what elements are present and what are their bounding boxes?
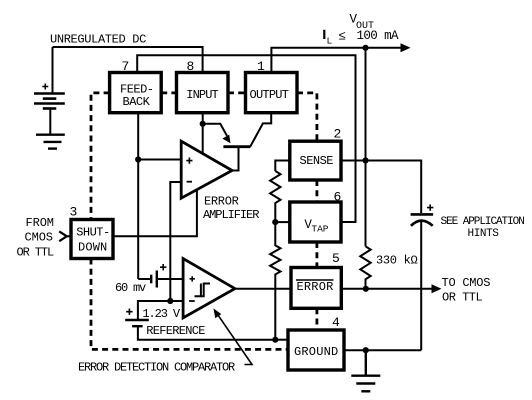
- battery B3 1.23V reference: [125, 319, 149, 321]
- node divider tap: [272, 219, 278, 225]
- node sense junction: [362, 157, 368, 163]
- svg-text:1.23 V: 1.23 V: [142, 307, 181, 321]
- svg-text:OR TTL: OR TTL: [17, 246, 55, 260]
- op-amp U2 error detection comparator: [183, 259, 235, 318]
- wire ERROR output to TO-CMOS arrow: [341, 288, 433, 290]
- transistor Q1 base bar: [223, 145, 250, 148]
- op-amp U1 error amplifier: [181, 141, 232, 198]
- node VOUT junction: [362, 45, 368, 51]
- svg-text:330 kΩ: 330 kΩ: [376, 254, 418, 268]
- wire SENSE right to sense node: [341, 160, 366, 162]
- svg-text:UNREGULATED DC: UNREGULATED DC: [50, 32, 146, 46]
- wire tap to VTAP block: [275, 221, 290, 223]
- node transistor emitter junction: [200, 121, 206, 127]
- svg-text:INPUT: INPUT: [186, 88, 218, 102]
- svg-text:TAP: TAP: [311, 223, 328, 234]
- wire shutdown output to error amp: [113, 190, 197, 237]
- wire VOUT down to sense node: [365, 48, 367, 161]
- node error amp + junction: [135, 156, 141, 162]
- block OUTPUT pin1: [246, 73, 298, 113]
- wire sense node down to resistor R3: [365, 161, 367, 247]
- wire INPUT pin down to error amp top: [202, 113, 204, 154]
- block VTAP pin6: [290, 202, 341, 242]
- wire to error amp + input: [138, 159, 181, 161]
- wire error amp - input down to reference node: [170, 182, 181, 301]
- svg-text:FROM: FROM: [26, 216, 54, 230]
- svg-text:DOWN: DOWN: [78, 241, 107, 255]
- node reference junction: [167, 298, 173, 304]
- wire error amp output to transistor base: [232, 148, 238, 171]
- block FEEDBACK pin7: [110, 73, 162, 113]
- svg-text:HINTS: HINTS: [468, 228, 500, 240]
- comparator plus label: [190, 276, 195, 281]
- svg-text:7: 7: [122, 59, 130, 74]
- svg-text:REFERENCE: REFERENCE: [146, 324, 205, 338]
- svg-text:CMOS: CMOS: [25, 231, 53, 245]
- battery B2 60mv offset: [150, 275, 152, 284]
- svg-text:SEE APPLICATION: SEE APPLICATION: [441, 216, 525, 228]
- svg-text:L: L: [327, 36, 333, 47]
- capacitor C1 top plate: [411, 213, 434, 216]
- wire capacitor bottom to ground wire: [420, 221, 422, 351]
- ground (battery): [36, 135, 65, 149]
- block INPUT pin8: [177, 73, 229, 113]
- battery 60mv plus sign: [160, 264, 166, 270]
- dashed IC border left and bottom: [91, 93, 317, 350]
- wire battery positive lead: [52, 47, 54, 93]
- resistor R3 330k: [360, 246, 370, 288]
- shutdown input chevron: [59, 231, 67, 241]
- capacitor C1 curved plate: [411, 221, 433, 226]
- wire SENSE left to divider: [275, 161, 290, 172]
- svg-text:ERROR: ERROR: [297, 280, 334, 294]
- svg-text:OR TTL: OR TTL: [442, 291, 483, 305]
- wire feedback-to-vtap line B: [137, 55, 355, 222]
- svg-text:2: 2: [334, 127, 342, 142]
- svg-text:TO CMOS: TO CMOS: [442, 276, 491, 290]
- wire chevron to SHUTDOWN block: [67, 235, 71, 237]
- svg-text:5: 5: [332, 251, 340, 266]
- block ERROR pin5: [291, 268, 341, 309]
- wire VOUT rail from OUTPUT pin: [271, 48, 402, 73]
- error amp plus label: [186, 158, 192, 164]
- comparator minus label: [189, 300, 195, 302]
- error amp minus label: [187, 181, 192, 183]
- label arrow error detection comparator: [216, 312, 252, 364]
- resistor R1 divider top: [270, 171, 280, 222]
- svg-text:GROUND: GROUND: [294, 345, 338, 359]
- text IL <= 100 mA: [323, 30, 325, 39]
- comparator hysteresis symbol: [195, 284, 211, 297]
- wire rail to GROUND block: [275, 339, 288, 341]
- svg-text:60 mv: 60 mv: [115, 281, 146, 295]
- svg-text:≤: ≤: [339, 30, 347, 44]
- transistor Q1 collector: [250, 113, 271, 147]
- wire 1.23V battery to reference rail: [138, 326, 275, 340]
- svg-text:6: 6: [334, 190, 342, 205]
- wire reference node to 1.23V battery: [138, 301, 170, 319]
- capacitor plus sign: [427, 204, 433, 210]
- svg-text:3: 3: [70, 205, 78, 220]
- svg-text:OUTPUT: OUTPUT: [250, 88, 289, 102]
- node error output junction: [363, 286, 369, 292]
- node ground junction: [363, 347, 369, 353]
- svg-text:4: 4: [332, 315, 340, 330]
- transistor Q1 emitter with arrow: [203, 124, 227, 136]
- arrowhead TO CMOS: [432, 284, 442, 293]
- node reference rail junction: [272, 337, 278, 343]
- svg-text:SHUT-: SHUT-: [76, 226, 110, 240]
- svg-text:AMPLIFIER: AMPLIFIER: [203, 208, 259, 222]
- wire FEEDBACK pin down to 60mv battery: [137, 113, 139, 279]
- svg-text:1: 1: [257, 59, 265, 74]
- svg-text:SENSE: SENSE: [300, 154, 334, 168]
- wire GROUND block right to ground symbol: [344, 349, 421, 351]
- arrowhead VOUT: [401, 43, 411, 52]
- svg-text:100 mA: 100 mA: [357, 29, 400, 43]
- wire sense node to capacitor branch: [366, 161, 422, 214]
- wire reference node to comparator - input: [170, 300, 183, 302]
- resistor R2 divider bottom: [270, 222, 280, 340]
- svg-text:ERROR: ERROR: [204, 195, 239, 209]
- wire unregulated DC rail to INPUT pin: [53, 47, 203, 73]
- ground symbol output side: [351, 350, 380, 391]
- svg-text:BACK: BACK: [123, 95, 151, 109]
- battery plus sign: [42, 84, 48, 90]
- battery B1 unregulated DC: [34, 94, 65, 135]
- block GROUND pin4: [288, 330, 344, 370]
- wire comparator output to ERROR block: [235, 288, 291, 290]
- block SENSE pin2: [290, 141, 341, 180]
- battery 1.23V plus sign: [126, 309, 132, 315]
- svg-text:ERROR DETECTION COMPARATOR: ERROR DETECTION COMPARATOR: [78, 361, 235, 375]
- block SHUTDOWN pin3: [71, 220, 113, 259]
- wire 60mv battery to comparator + input: [138, 278, 183, 280]
- svg-text:8: 8: [187, 59, 195, 74]
